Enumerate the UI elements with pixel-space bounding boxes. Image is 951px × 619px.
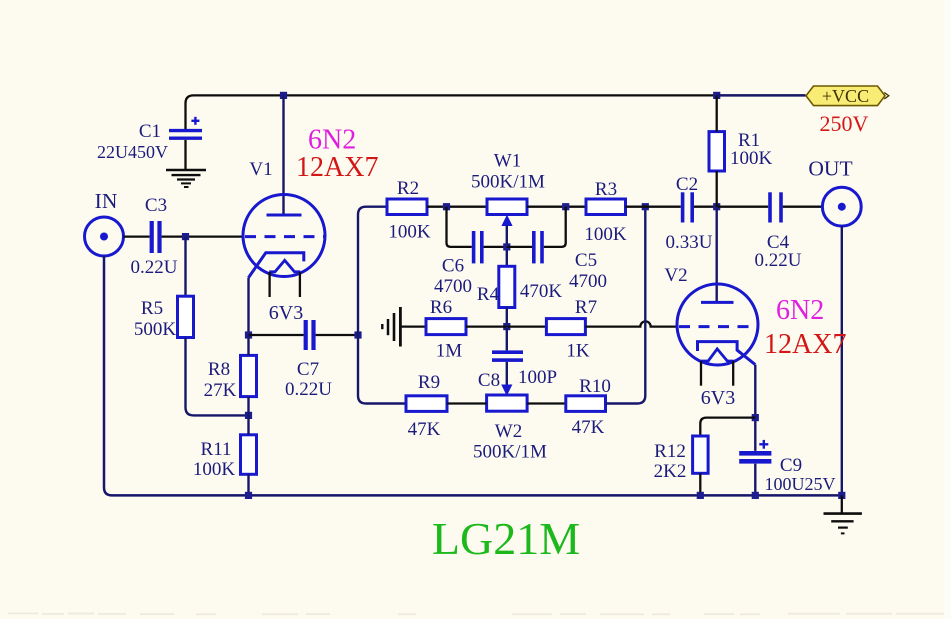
node C2 / R1 / V2 plate / C4 (713, 203, 720, 210)
connector OUT (822, 187, 861, 226)
capacitor C8 (492, 350, 523, 362)
wire C2 to R1 node (694, 206, 717, 208)
svg-text:500K: 500K (134, 319, 177, 340)
node C7 / 358 net (354, 331, 361, 338)
wire cathode node to C7 (249, 334, 304, 336)
capacitor C3 (150, 221, 162, 253)
wire R3 to C2 (626, 206, 681, 208)
svg-text:V1: V1 (249, 159, 272, 180)
svg-text:100K: 100K (730, 148, 773, 169)
wire V2 cathode drop (754, 365, 756, 451)
node C9 / bottom rail (752, 492, 759, 499)
connector IN (85, 217, 124, 256)
svg-text:C7: C7 (297, 359, 319, 380)
wire V2 plate drop (716, 207, 718, 303)
capacitor C2 (681, 192, 694, 222)
tube V2 (677, 284, 758, 386)
wire R5 drop (184, 237, 186, 297)
wire C8 to W2 arrow (506, 362, 508, 385)
svg-text:IN: IN (95, 189, 118, 213)
svg-text:+VCC: +VCC (822, 86, 869, 106)
ground bottom right (824, 495, 862, 533)
svg-text:100K: 100K (193, 459, 236, 480)
node W1 / C5 / R3 (562, 203, 569, 210)
svg-text:6N2: 6N2 (308, 125, 356, 156)
svg-text:R2: R2 (397, 178, 419, 199)
wire R5 to R8 node (186, 338, 249, 416)
wire C2 node to C4 (717, 206, 769, 208)
svg-text:C1: C1 (139, 121, 161, 142)
node R2 / W1 / C6 (443, 203, 450, 210)
ground tone stack (382, 307, 426, 347)
svg-text:500K/1M: 500K/1M (473, 442, 547, 463)
svg-text:6N2: 6N2 (776, 295, 824, 326)
svg-text:0.22U: 0.22U (131, 257, 178, 278)
svg-text:500K/1M: 500K/1M (471, 172, 545, 193)
wire R2 to W1 (427, 206, 487, 208)
node OUT / bottom rail / ground (838, 492, 845, 499)
wire R4 to center node (506, 308, 508, 327)
resistor R7 (546, 319, 585, 335)
resistor R12 (693, 436, 709, 473)
svg-text:C2: C2 (676, 174, 698, 195)
node R3 / C2 / feedback (642, 203, 649, 210)
node C6 / C5 / wiper / R4 (503, 243, 510, 250)
svg-text:6V3: 6V3 (269, 302, 303, 324)
wire V1 plate drop (282, 95, 284, 215)
wire R8 leads (247, 335, 249, 495)
svg-text:22U450V: 22U450V (97, 142, 168, 162)
wire V1 cathode drop (247, 278, 249, 335)
node top rail / R1 (713, 92, 720, 99)
node cathode / R12 / C9 (752, 414, 759, 421)
wire top rail to VCC flag (717, 94, 806, 96)
svg-text:100U25V: 100U25V (765, 474, 836, 494)
wire R10 to feedback net (606, 207, 646, 404)
svg-text:1K: 1K (566, 341, 590, 362)
svg-text:R10: R10 (579, 376, 611, 397)
svg-text:470K: 470K (520, 281, 563, 302)
resistor R10 (566, 396, 606, 412)
svg-text:100P: 100P (518, 367, 557, 388)
svg-text:R8: R8 (208, 359, 230, 380)
node R12 / bottom rail (697, 492, 704, 499)
capacitor C7 (304, 320, 316, 350)
svg-text:0.22U: 0.22U (285, 379, 332, 400)
resistor R1 (709, 132, 725, 171)
power flag +VCC (806, 86, 889, 106)
wire IN drop and bottom rail (104, 256, 842, 495)
svg-text:R4: R4 (477, 284, 500, 305)
wire R12 branch (700, 418, 755, 436)
wire 358 net R2 to R9 (358, 207, 406, 404)
svg-text:C3: C3 (145, 195, 167, 216)
tube V1 (243, 195, 325, 298)
svg-text:R7: R7 (575, 297, 597, 318)
svg-text:LG21M: LG21M (432, 513, 580, 564)
svg-text:12AX7: 12AX7 (764, 329, 846, 360)
node R4 / R6 / R7 / C8 (503, 323, 510, 330)
resistor R8 (241, 355, 257, 396)
capacitor C5 (532, 231, 544, 263)
wire top rail VCC (186, 95, 806, 129)
svg-text:R5: R5 (141, 298, 163, 319)
potentiometer W2 (487, 395, 527, 411)
resistor R5 (178, 296, 194, 337)
capacitor C9 (739, 440, 771, 464)
node cathode / R8 / C7 (245, 331, 252, 338)
svg-text:R12: R12 (654, 441, 686, 462)
svg-text:1M: 1M (436, 341, 463, 362)
resistor R11 (241, 435, 257, 475)
resistor R9 (406, 396, 447, 412)
svg-text:OUT: OUT (808, 157, 852, 181)
svg-text:47K: 47K (408, 419, 441, 440)
node C3 / R5 / grid (182, 233, 189, 240)
svg-text:R3: R3 (595, 179, 617, 200)
svg-text:250V: 250V (820, 111, 869, 136)
svg-text:C5: C5 (575, 250, 597, 271)
wiper arrow W2 (502, 385, 512, 395)
wire C3 to V1 grid (162, 235, 244, 237)
svg-text:4700: 4700 (434, 276, 472, 297)
wire C6 to center (484, 246, 507, 248)
svg-text:12AX7: 12AX7 (296, 152, 378, 183)
capacitor C1 (169, 117, 202, 169)
svg-text:R9: R9 (418, 372, 440, 393)
wire C9 bottom lead (754, 464, 756, 496)
wire C8 top lead (506, 327, 508, 351)
svg-text:4700: 4700 (569, 271, 607, 292)
svg-text:2K2: 2K2 (654, 461, 687, 482)
svg-text:0.22U: 0.22U (755, 250, 802, 271)
svg-text:100K: 100K (388, 222, 431, 243)
wire C6 branch left (447, 207, 472, 247)
svg-text:W1: W1 (494, 151, 521, 172)
capacitor C6 (472, 231, 484, 263)
svg-text:0.33U: 0.33U (666, 232, 713, 253)
capacitor C4 (768, 192, 783, 222)
wire center to R7 (507, 325, 547, 327)
node R11 / bottom rail (245, 492, 252, 499)
svg-text:27K: 27K (204, 380, 237, 401)
resistor R2 (387, 199, 427, 215)
wire center to C5 (507, 246, 532, 248)
wire C4 to OUT (783, 206, 823, 208)
svg-text:47K: 47K (572, 417, 605, 438)
wire R12 bottom lead (699, 473, 701, 495)
wire R1 leads (716, 95, 718, 206)
wire W2 to R10 (527, 402, 566, 404)
svg-text:100K: 100K (584, 224, 627, 245)
svg-text:R6: R6 (430, 297, 452, 318)
potentiometer W1 (487, 199, 527, 215)
wiper arrow W1 (502, 216, 512, 226)
wire OUT drop (841, 226, 843, 495)
node top rail / V1 plate (280, 92, 287, 99)
resistor R3 (586, 199, 626, 215)
wire W1 wiper stem (506, 226, 508, 267)
svg-text:V2: V2 (664, 265, 687, 286)
svg-text:C8: C8 (478, 370, 500, 391)
svg-text:6V3: 6V3 (701, 387, 735, 409)
resistor R4 (499, 266, 515, 307)
resistor R6 (426, 319, 466, 335)
wire C7 to 358 net (316, 334, 358, 336)
svg-text:W2: W2 (495, 421, 522, 442)
svg-text:C9: C9 (780, 455, 802, 476)
wire R7 to V2 grid with hop (585, 321, 677, 326)
wire W1 to R3 (527, 206, 586, 208)
ground below C1 (166, 170, 206, 187)
wire C5 branch right (544, 207, 566, 247)
node R5 / R8 / R11 (245, 412, 252, 419)
svg-text:C6: C6 (442, 256, 464, 277)
wire IN to C3 (124, 235, 150, 237)
wire R6 to center (466, 325, 507, 327)
wire R9 to W2 (447, 402, 487, 404)
svg-text:R11: R11 (201, 439, 232, 460)
